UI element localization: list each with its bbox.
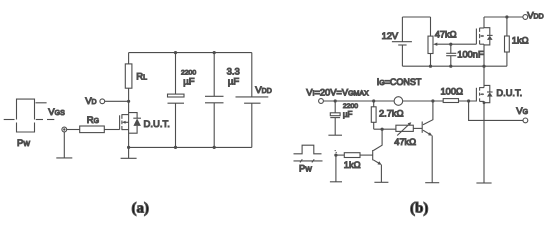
capacitor 2200uF (b) <box>330 101 340 135</box>
junction VG tap <box>467 99 470 102</box>
svg-text:VDD: VDD <box>255 85 271 96</box>
svg-text:µF: µF <box>183 77 194 88</box>
dimension line PW <box>294 160 323 162</box>
wiper wire to upper mosfet gate <box>437 43 477 45</box>
ground (input) <box>56 157 72 159</box>
resistor 2.7k <box>373 101 375 107</box>
upper mosfet <box>476 28 492 45</box>
DUT(b) source down wire <box>483 101 485 183</box>
DUT(b) drain up wire <box>483 66 485 87</box>
top rail VDD (b) <box>484 16 523 18</box>
wire battery top to 47k pot <box>402 16 430 18</box>
battery VDD (a) <box>236 53 269 148</box>
node wire to 47k pot and Q2 base <box>374 128 396 130</box>
svg-text:PW: PW <box>17 138 30 149</box>
svg-text:µF: µF <box>228 77 239 88</box>
ground (DUT b source) <box>476 182 491 184</box>
wire RG to gate <box>104 129 119 131</box>
node VD terminal <box>100 99 105 104</box>
capacitor 2200uF (a) <box>168 51 185 149</box>
svg-text:VDD: VDD <box>527 11 543 22</box>
pulse waveform VGS source <box>4 99 55 132</box>
wire pulse node down <box>335 155 337 182</box>
resistor RL <box>125 64 132 88</box>
svg-text:µF: µF <box>343 110 353 119</box>
mosfet DUT (b) <box>476 85 492 102</box>
upper mosfet drain to VDD rail <box>483 17 485 28</box>
svg-text:(b): (b) <box>410 201 428 217</box>
capacitor 100nF <box>446 44 456 68</box>
junction 100nF tap <box>449 43 452 46</box>
junction 2.7k tap <box>372 99 375 102</box>
ground (pulse node) <box>330 181 342 183</box>
svg-text:VG: VG <box>516 106 528 117</box>
transistor Q2 <box>422 101 433 183</box>
input terminal node <box>62 127 67 132</box>
capacitor 3.3uF (a) <box>205 51 224 149</box>
svg-text:RG: RG <box>87 115 99 126</box>
resistor 1k (vertical) <box>506 17 508 36</box>
top rail (a) <box>129 52 252 54</box>
junction Q2 collector <box>431 99 434 102</box>
svg-text:12V: 12V <box>382 31 399 41</box>
svg-text:PW: PW <box>299 164 312 174</box>
resistor RG <box>80 126 105 133</box>
pulse waveform PW (b) <box>294 145 322 154</box>
svg-text:D.U.T.: D.U.T. <box>144 119 170 130</box>
terminal VG <box>523 118 528 123</box>
svg-text:RL: RL <box>136 72 147 83</box>
junction 2200uF tap <box>334 99 337 102</box>
wire terminal down <box>63 132 65 158</box>
svg-text:2.7kΩ: 2.7kΩ <box>379 109 404 119</box>
source to ground wire <box>128 147 130 158</box>
svg-text:1kΩ: 1kΩ <box>344 160 361 170</box>
potentiometer 47k (horizontal) <box>396 125 413 131</box>
ground (Q2 emitter) <box>425 182 439 184</box>
current source circle <box>394 97 403 106</box>
wire VD to drain <box>105 100 129 102</box>
wire terminal to RG <box>67 129 80 131</box>
mosfet DUT (a) <box>120 113 141 134</box>
terminal VDD (b) <box>523 15 528 20</box>
potentiometer 47k (vertical) <box>430 17 432 36</box>
wire Vi rail <box>323 100 394 102</box>
pulse node with dashed tap <box>334 154 337 157</box>
battery 12V <box>392 17 412 66</box>
upper mosfet source to bottom rail <box>483 44 485 66</box>
wire RL to top rail <box>128 53 130 64</box>
svg-text:100Ω: 100Ω <box>441 87 464 97</box>
svg-text:(a): (a) <box>132 201 150 217</box>
ground (Q1 emitter) <box>374 181 388 183</box>
svg-text:47kΩ: 47kΩ <box>394 137 416 147</box>
drain-source vertical wire <box>128 88 130 147</box>
transistor Q1 <box>362 129 382 182</box>
svg-text:47kΩ: 47kΩ <box>435 30 457 40</box>
bottom rail (a) <box>129 146 252 148</box>
svg-text:VD: VD <box>85 96 96 107</box>
resistor 1k (horizontal) <box>336 154 344 156</box>
resistor 100ohm <box>443 99 458 103</box>
junction 1k top <box>505 15 508 18</box>
svg-text:1kΩ: 1kΩ <box>512 36 529 46</box>
input terminal Vi <box>319 99 324 104</box>
svg-text:IG=CONST: IG=CONST <box>377 77 422 87</box>
wire VG <box>469 101 523 120</box>
svg-text:VI=20V=VGMAX: VI=20V=VGMAX <box>306 88 369 98</box>
ground (DUT source) <box>121 157 137 159</box>
svg-text:D.U.T.: D.U.T. <box>496 88 522 98</box>
ground (2200uF b) <box>328 134 342 136</box>
svg-text:100nF: 100nF <box>457 50 484 60</box>
bottom rail (b top section) <box>402 65 507 67</box>
svg-text:VGS: VGS <box>48 107 65 118</box>
